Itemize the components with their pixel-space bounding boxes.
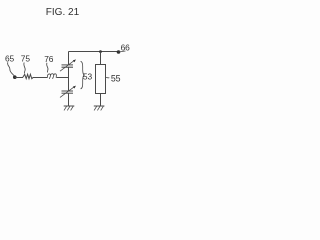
wire from inductor 76 to node — [57, 77, 69, 79]
lead line for 75 — [24, 63, 25, 74]
ground (right, below resistor 55) — [94, 106, 105, 110]
inductor 76 (coil) — [47, 74, 56, 79]
label 65 — [5, 54, 15, 64]
lead line for 55 — [106, 76, 110, 79]
variable capacitor (upper, group 53) — [60, 59, 76, 71]
svg-text:65: 65 — [5, 54, 15, 64]
svg-text:75: 75 — [21, 54, 31, 64]
label 76 — [44, 54, 54, 64]
resistor 75 (zigzag) — [23, 74, 34, 78]
variable capacitor (lower, group 53) — [60, 86, 76, 98]
svg-text:66: 66 — [121, 43, 131, 53]
brace grouping capacitors 53 — [81, 61, 85, 89]
lead line for 76 — [47, 63, 48, 73]
lead line for 66 — [119, 51, 126, 52]
wire: upper cap to top corner — [68, 52, 70, 65]
label 53 — [83, 72, 93, 82]
wire: top horizontal from corner to terminal 66 — [69, 51, 119, 53]
wire: lower cap down to ground — [68, 93, 70, 106]
resistor 55 (box) — [96, 65, 106, 94]
node: junction of top wire and resistor 55 branch (dot) — [99, 50, 102, 53]
title FIG. 21 — [46, 7, 80, 18]
terminal 66 (dot) — [117, 50, 121, 54]
svg-text:FIG. 21: FIG. 21 — [46, 7, 80, 18]
lead line for 65 — [8, 62, 15, 75]
wire from resistor 75 to inductor 76 — [33, 77, 48, 79]
ground (left, below lower capacitor) — [64, 106, 75, 110]
label 75 — [21, 54, 31, 64]
wire: vertical riser of capacitor chain (node to upper cap) — [68, 67, 70, 77]
wire: vertical from node down to lower cap — [68, 78, 70, 92]
svg-text:55: 55 — [111, 73, 121, 83]
svg-text:76: 76 — [44, 54, 54, 64]
wire: junction down to resistor 55 — [100, 52, 102, 66]
wire from terminal 65 to resistor 75 — [15, 77, 23, 79]
terminal 65 (dot) — [13, 75, 17, 79]
svg-text:53: 53 — [83, 72, 93, 82]
wire: resistor 55 down to ground — [100, 94, 102, 107]
label 66 — [121, 43, 131, 53]
label 55 — [111, 73, 121, 83]
